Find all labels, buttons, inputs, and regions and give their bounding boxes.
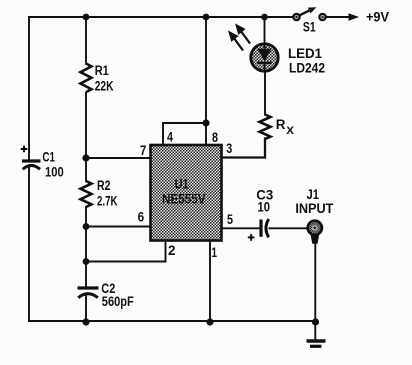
svg-text:U1: U1 xyxy=(175,177,189,192)
svg-text:NE555V: NE555V xyxy=(162,192,206,207)
svg-text:2.7K: 2.7K xyxy=(97,194,118,209)
svg-text:7: 7 xyxy=(140,143,146,158)
svg-text:X: X xyxy=(286,125,294,137)
svg-text:22K: 22K xyxy=(95,79,114,94)
svg-text:6: 6 xyxy=(138,210,145,225)
svg-text:LED1: LED1 xyxy=(288,46,322,61)
svg-text:S1: S1 xyxy=(303,20,316,35)
svg-text:+9V: +9V xyxy=(366,9,389,24)
svg-text:R1: R1 xyxy=(95,63,109,78)
svg-text:LD242: LD242 xyxy=(289,60,325,75)
svg-text:10: 10 xyxy=(258,200,271,215)
svg-text:8: 8 xyxy=(212,130,218,145)
svg-text:3: 3 xyxy=(226,141,232,156)
svg-text:INPUT: INPUT xyxy=(295,201,334,216)
svg-text:C1: C1 xyxy=(42,150,55,165)
svg-text:R: R xyxy=(276,117,286,132)
svg-text:100: 100 xyxy=(45,165,64,180)
svg-text:2: 2 xyxy=(168,243,176,258)
svg-text:1: 1 xyxy=(212,245,218,260)
svg-text:560pF: 560pF xyxy=(102,294,134,309)
svg-text:5: 5 xyxy=(227,212,233,227)
svg-text:J1: J1 xyxy=(307,187,320,202)
svg-text:R2: R2 xyxy=(97,178,111,193)
svg-text:4: 4 xyxy=(167,129,173,144)
